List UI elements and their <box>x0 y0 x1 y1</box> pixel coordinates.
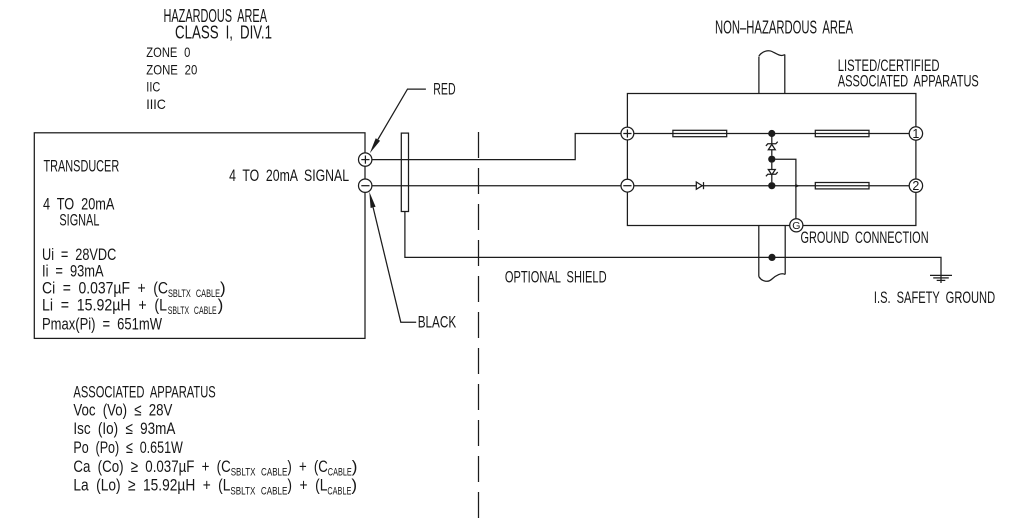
svg-text:ZONE 0: ZONE 0 <box>146 44 190 60</box>
terminal 1 <box>909 127 922 141</box>
svg-text:IIC: IIC <box>146 79 160 95</box>
svg-text:Isc (Io) ≤ 93mA: Isc (Io) ≤ 93mA <box>73 419 176 438</box>
terminal minus barrier <box>621 179 634 192</box>
svg-text:NON–HAZARDOUS AREA: NON–HAZARDOUS AREA <box>715 18 853 38</box>
ground I.S. safety ground symbol <box>930 275 952 280</box>
svg-text:Li = 15.92µH + (L: Li = 15.92µH + (L <box>42 295 167 314</box>
wire barrier bottom rail <box>633 185 909 187</box>
resistor R1 <box>673 130 727 136</box>
optional shield connector <box>401 133 408 211</box>
cable conduit bottom <box>759 226 785 282</box>
hazardous/non-hazardous boundary dashed line <box>478 132 480 519</box>
diode D1 <box>696 182 703 189</box>
svg-text:TRANSDUCER: TRANSDUCER <box>44 157 120 176</box>
svg-text:Pmax(Pi) = 651mW: Pmax(Pi) = 651mW <box>42 315 162 334</box>
svg-text:SBLTX CABLE: SBLTX CABLE <box>231 467 288 479</box>
leader BLACK wire <box>373 207 416 322</box>
associated apparatus box <box>627 94 916 226</box>
svg-text:4 TO 20mA SIGNAL: 4 TO 20mA SIGNAL <box>229 166 349 185</box>
wire barrier top rail <box>633 133 909 135</box>
svg-text:SBLTX CABLE: SBLTX CABLE <box>168 305 217 317</box>
node shield junction in cable <box>768 254 775 261</box>
terminal 2 <box>909 179 922 193</box>
wire transducer minus to barrier minus <box>372 185 622 187</box>
svg-text:OPTIONAL SHIELD: OPTIONAL SHIELD <box>505 268 607 287</box>
svg-text:CLASS I, DIV.1: CLASS I, DIV.1 <box>175 23 272 43</box>
terminal minus transducer <box>359 179 372 192</box>
svg-text:Ca (Co) ≥ 0.037µF + (C: Ca (Co) ≥ 0.037µF + (C <box>73 457 230 476</box>
node middle junction <box>768 156 775 163</box>
label Ca (Co) >= 0.037uF + (C SBLTX CABLE) + (C CABLE) <box>73 457 357 479</box>
svg-text:): ) <box>352 457 358 476</box>
svg-text:RED: RED <box>433 80 455 99</box>
svg-text:CABLE: CABLE <box>328 467 352 479</box>
wire transducer plus to barrier plus <box>372 134 621 160</box>
leader RED arrowhead <box>370 138 380 153</box>
svg-text:): ) <box>351 476 357 495</box>
svg-text:G: G <box>792 220 800 232</box>
svg-text:I.S. SAFETY GROUND: I.S. SAFETY GROUND <box>874 288 995 307</box>
zener diode Z1 <box>766 137 778 156</box>
svg-text:ASSOCIATED APPARATUS: ASSOCIATED APPARATUS <box>838 71 979 90</box>
transducer box <box>34 133 365 339</box>
svg-text:Voc (Vo) ≤ 28V: Voc (Vo) ≤ 28V <box>73 401 173 420</box>
wire optional shield <box>405 212 941 284</box>
node bottom junction <box>768 182 775 189</box>
svg-text:SBLTX CABLE: SBLTX CABLE <box>168 288 220 300</box>
svg-text:) + (L: ) + (L <box>287 476 327 495</box>
label Li = 15.92uH + (L SBLTX CABLE) <box>42 295 223 317</box>
wire middle junction to ground terminal G <box>775 159 796 219</box>
terminal plus transducer <box>359 153 372 166</box>
svg-text:IIIC: IIIC <box>146 96 166 112</box>
terminal G ground connection <box>790 219 803 232</box>
leader BLACK arrowhead <box>369 192 375 208</box>
cable conduit top <box>759 51 785 94</box>
node top junction <box>768 130 775 137</box>
terminal plus barrier <box>621 127 634 140</box>
svg-text:La (Lo) ≥ 15.92µH + (L: La (Lo) ≥ 15.92µH + (L <box>73 476 230 495</box>
zener diode Z2 <box>766 163 778 183</box>
label Ci = 0.037uF + (C SBLTX CABLE) <box>42 278 226 300</box>
label La (Lo) >= 15.92uH + (L SBLTX CABLE) + (L CABLE) <box>73 476 357 498</box>
svg-text:): ) <box>218 295 224 314</box>
svg-text:) + (C: ) + (C <box>287 457 327 476</box>
svg-text:CABLE: CABLE <box>327 486 351 498</box>
svg-text:SBLTX CABLE: SBLTX CABLE <box>230 486 287 498</box>
leader RED wire <box>378 89 426 139</box>
svg-text:GROUND CONNECTION: GROUND CONNECTION <box>801 228 929 247</box>
svg-text:Po (Po) ≤ 0.651W: Po (Po) ≤ 0.651W <box>73 438 182 457</box>
svg-text:ASSOCIATED APPARATUS: ASSOCIATED APPARATUS <box>73 382 215 401</box>
svg-text:ZONE 20: ZONE 20 <box>146 62 197 78</box>
resistor R2 <box>815 130 869 136</box>
svg-text:1: 1 <box>912 127 919 141</box>
svg-text:2: 2 <box>912 179 919 193</box>
resistor R3 <box>815 183 869 189</box>
svg-text:SIGNAL: SIGNAL <box>59 210 99 229</box>
svg-text:BLACK: BLACK <box>418 313 457 332</box>
node crossing marker <box>795 184 799 188</box>
